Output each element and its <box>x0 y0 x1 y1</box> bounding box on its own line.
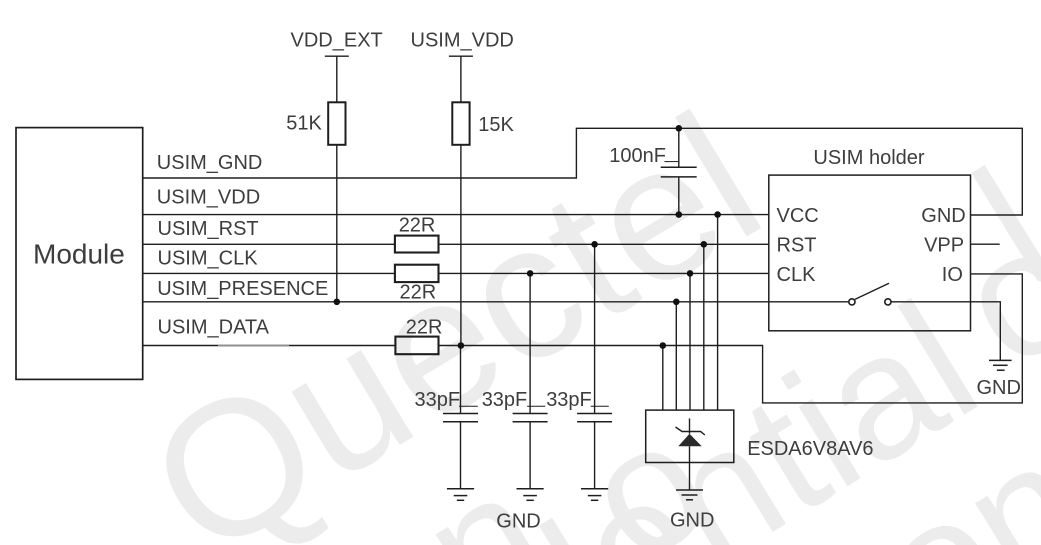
svg-text:GND: GND <box>977 377 1021 399</box>
svg-text:USIM_RST: USIM_RST <box>158 218 259 240</box>
svg-text:RST: RST <box>777 234 817 256</box>
node CLK/ESD <box>687 270 694 277</box>
svg-text:USIM_VDD: USIM_VDD <box>411 29 514 51</box>
wire switch to ground <box>891 302 1000 361</box>
wire USIM_VDD <box>143 214 769 216</box>
svg-text:VCC: VCC <box>777 205 819 227</box>
wire USIM_PRESENCE <box>143 301 849 303</box>
svg-text:51K: 51K <box>286 113 322 135</box>
node RST/ESD <box>701 241 708 248</box>
svg-text:33pF: 33pF <box>482 389 528 411</box>
node DATA/ESD <box>660 342 667 349</box>
wire USIM_RST right <box>439 243 770 245</box>
svg-text:GND: GND <box>496 511 540 533</box>
svg-text:22R: 22R <box>400 281 437 303</box>
node VDD/ESD <box>714 211 721 218</box>
wire USIM_DATA gray overlay <box>218 345 289 347</box>
svg-text:USIM_PRESENCE: USIM_PRESENCE <box>157 278 328 300</box>
svg-text:33pF: 33pF <box>546 389 592 411</box>
capacitor 100nF <box>661 128 697 214</box>
power flag VDD_EXT <box>325 56 349 102</box>
svg-text:22R: 22R <box>406 317 443 339</box>
node rail/100nF <box>676 125 683 132</box>
resistor R 22R on CLK <box>395 265 439 282</box>
wire USIM_CLK left <box>143 272 395 274</box>
node RST/C3 <box>591 241 598 248</box>
svg-text:22R: 22R <box>399 215 436 237</box>
svg-text:VDD_EXT: VDD_EXT <box>291 29 383 51</box>
module box <box>16 128 143 380</box>
svg-text:IO: IO <box>942 264 963 286</box>
wire DATA to ESD <box>662 346 664 411</box>
svg-text:CLK: CLK <box>777 264 817 286</box>
svg-text:GND: GND <box>670 510 714 532</box>
wire USIM_CLK right <box>439 272 770 274</box>
switch SIM presence <box>849 283 891 305</box>
svg-text:15K: 15K <box>478 114 514 136</box>
ground under ESD <box>676 490 703 500</box>
wire VCC to ESD <box>717 215 719 411</box>
USIM holder box U1 <box>769 175 971 331</box>
ground under switch <box>989 360 1012 370</box>
svg-text:VPP: VPP <box>924 234 964 256</box>
svg-text:USIM_VDD: USIM_VDD <box>157 186 260 208</box>
ground under C1 <box>447 489 474 501</box>
resistor R 22R on DATA <box>395 337 438 355</box>
wire PRESENCE to ESD <box>675 302 677 410</box>
node 100nF/VDD <box>676 211 683 218</box>
wire USIM_RST left <box>143 243 395 245</box>
node CLK/C2 <box>527 270 534 277</box>
TVS diode symbol <box>676 418 705 462</box>
wire VPP stub <box>971 243 1000 245</box>
junction dots <box>334 125 721 349</box>
power flag USIM_VDD <box>449 56 473 102</box>
resistor R 15K <box>452 102 469 145</box>
ground under C3 <box>581 489 608 501</box>
svg-text:33pF: 33pF <box>415 389 461 411</box>
svg-text:100nF: 100nF <box>609 145 666 167</box>
svg-text:Module: Module <box>33 238 125 269</box>
svg-text:GND: GND <box>921 205 965 227</box>
capacitor C 33pF #1 <box>443 346 478 489</box>
node PRESENCE/51K <box>334 299 341 306</box>
wire 51K to presence line <box>336 145 338 302</box>
wire ESD to ground <box>689 463 691 491</box>
wire 15K to data line <box>460 145 462 346</box>
wire USIM_DATA left <box>143 345 396 347</box>
resistor R 51K <box>328 102 345 145</box>
svg-text:USIM_GND: USIM_GND <box>157 152 263 174</box>
capacitor C 33pF #2 <box>513 273 548 488</box>
svg-text:USIM_DATA: USIM_DATA <box>158 317 270 339</box>
wire RST to ESD <box>703 244 705 410</box>
wire USIM_GND: module to rail corner <box>143 128 1023 215</box>
TVS ESDA6V8AV6 box <box>646 410 734 462</box>
ground under C2 <box>517 489 544 501</box>
wire USIM_DATA to IO routing <box>439 274 1023 403</box>
wire CLK to ESD <box>689 273 691 410</box>
resistor R 22R on RST <box>395 236 439 253</box>
capacitor C 33pF #3 <box>577 244 612 488</box>
svg-text:USIM_CLK: USIM_CLK <box>158 248 259 270</box>
svg-text:ESDA6V8AV6: ESDA6V8AV6 <box>747 438 873 460</box>
svg-text:USIM holder: USIM holder <box>813 147 924 169</box>
node PRESENCE/ESD <box>673 299 680 306</box>
node DATA/15K/C1 <box>458 342 465 349</box>
